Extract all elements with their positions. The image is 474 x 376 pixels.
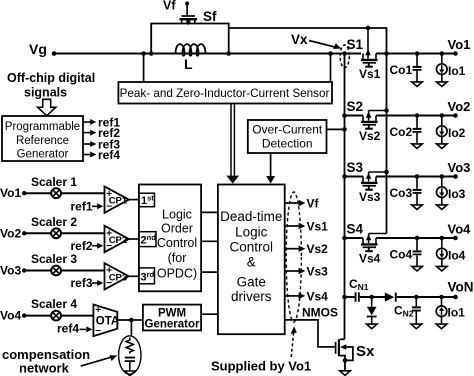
- ground under Co3: [412, 205, 423, 210]
- ground under D1: [366, 324, 377, 329]
- current source Io3 arrow: [441, 188, 443, 194]
- node CN2 junction: [414, 295, 419, 300]
- transistor S3 gate bar: [363, 185, 377, 187]
- node Co4 junction: [415, 236, 420, 241]
- ground under Io4: [437, 266, 448, 271]
- node S2 tap on Vx rail: [342, 113, 347, 118]
- wire Vx vertical rail: [344, 54, 346, 340]
- wire Vo2 feedback line: [24, 232, 104, 234]
- block dead-time logic control box: [218, 185, 285, 335]
- svg-text:+: +: [95, 305, 101, 316]
- svg-text:drivers: drivers: [231, 289, 272, 304]
- block 2nd priority sub-box: [139, 232, 156, 247]
- node Vo4 feedback dot: [22, 313, 26, 317]
- svg-text:Scaler 3: Scaler 3: [31, 252, 77, 266]
- svg-text:Vo4: Vo4: [0, 309, 21, 323]
- transistor S1 left contact: [362, 54, 364, 60]
- transistor S1 gate T bar: [365, 66, 373, 68]
- wire sensor output bus double line: [230, 104, 232, 177]
- transistor Sf left contact: [181, 20, 183, 24]
- svg-text:Io4: Io4: [448, 249, 466, 263]
- node VoN shunt diode junction: [369, 295, 374, 300]
- wire sensor bus arrowhead: [226, 176, 239, 184]
- svg-text:Io3: Io3: [448, 187, 466, 201]
- wire CP2 output: [129, 238, 139, 240]
- wire Vo3 feedback line: [24, 270, 104, 272]
- svg-text:Order: Order: [161, 222, 193, 236]
- wire to compensation network: [130, 320, 132, 337]
- node S3 tap on Vx rail: [342, 174, 347, 179]
- comparator CP3 triangle: [105, 263, 129, 289]
- wire supplied-by dashed arrow: [291, 333, 293, 357]
- svg-text:Sf: Sf: [203, 9, 217, 24]
- transistor S2 right contact: [375, 116, 377, 122]
- wire ref1 arrow: [92, 205, 99, 207]
- node Co2 junction: [415, 113, 420, 118]
- current source Io2 arrow: [441, 127, 443, 133]
- block 1st priority sub-box: [139, 193, 155, 207]
- wire Vs3 gate-drive output: [285, 270, 301, 272]
- wire VoN row from Vx rail: [345, 296, 355, 298]
- wire ref3 arrow: [92, 282, 99, 284]
- svg-text:CP3: CP3: [109, 272, 127, 283]
- svg-text:Vo4: Vo4: [448, 222, 472, 237]
- wire OCD output arrowhead: [266, 176, 275, 184]
- node Co3 junction: [415, 174, 420, 179]
- current source Io4 lower stub: [441, 259, 443, 266]
- wire S3 bulk line to rail: [369, 171, 387, 173]
- svg-text:Control: Control: [157, 236, 197, 250]
- transistor Sf gate bar: [182, 15, 196, 17]
- transistor S2 channel bar: [361, 121, 378, 123]
- wire right sense tap: [330, 54, 332, 83]
- node Vo3 feedback dot: [22, 268, 26, 272]
- svg-text:Co1: Co1: [390, 63, 413, 77]
- svg-text:network: network: [19, 361, 70, 376]
- diode D2 series triangle: [385, 293, 394, 302]
- wire OTA output: [117, 319, 143, 321]
- node Vf terminal dot: [185, 2, 189, 6]
- diode D1 cathode bar: [367, 316, 377, 318]
- wire ref2 output arrow: [83, 132, 92, 134]
- svg-text:Supplied by Vo1: Supplied by Vo1: [211, 359, 311, 374]
- node Io3 junction: [440, 174, 445, 179]
- capacitor CN1 plates: [355, 292, 357, 301]
- capacitor Co4 plates: [413, 250, 422, 252]
- svg-text:Over-Current: Over-Current: [252, 123, 323, 137]
- block logic order control box: [139, 185, 201, 292]
- block peak/zero inductor current sensor box: [118, 82, 332, 104]
- wire ref4 output arrow: [83, 154, 92, 156]
- transistor S1 drain stub from top rail: [367, 28, 369, 59]
- transistor S3 gate T stub: [368, 186, 370, 189]
- wire Vx pointer arrow: [309, 41, 336, 48]
- node S2 bulk junction on rail: [384, 108, 389, 113]
- multiplier scaler 3 symbol: [51, 266, 61, 276]
- wire Cc lower stub: [129, 362, 131, 371]
- transistor S2 gate T bar: [365, 128, 373, 130]
- current source Io1 arrow: [441, 65, 443, 71]
- svg-text:Vx: Vx: [291, 32, 308, 47]
- wire S4 stub from Vx rail: [345, 237, 364, 239]
- svg-text:Co4: Co4: [390, 248, 413, 262]
- wire S4 bulk line to rail: [369, 233, 387, 235]
- wire S4 bulk stub: [368, 234, 370, 244]
- svg-text:Off-chip digital: Off-chip digital: [7, 71, 95, 85]
- wire left sense tap: [143, 54, 145, 83]
- node Co1 junction: [415, 51, 420, 56]
- svg-text:ref3: ref3: [71, 276, 93, 290]
- capacitor Co2 plates: [413, 128, 422, 130]
- svg-text:ref4: ref4: [98, 148, 120, 162]
- wire S2 stub from Vx rail: [345, 115, 364, 117]
- op-amp OTA body: [93, 305, 117, 337]
- wire Vo4 output line: [376, 237, 456, 239]
- ground under Co2: [412, 144, 423, 149]
- node Vg terminal dot: [52, 51, 57, 56]
- transistor S1 channel bar: [361, 59, 378, 61]
- capacitor Co4 stub: [416, 238, 418, 250]
- svg-text:Logic: Logic: [162, 207, 192, 221]
- svg-text:S4: S4: [347, 222, 364, 237]
- wire CP3 output: [129, 275, 139, 277]
- transistor S3 right contact: [375, 177, 377, 183]
- current source Io1N lower stub: [441, 317, 443, 325]
- svg-text:Vs3: Vs3: [307, 265, 329, 279]
- capacitor CN2 lower stub: [415, 312, 417, 325]
- transistor S3 channel bar: [361, 182, 378, 184]
- capacitor Co3 stub: [416, 177, 418, 189]
- current source Io2 circle: [437, 126, 448, 137]
- svg-text:OPDC): OPDC): [157, 267, 197, 281]
- transistor S3 left contact: [362, 177, 364, 183]
- node right sense tap dot: [328, 51, 333, 56]
- current source Io1N stub: [441, 297, 443, 306]
- svg-text:Logic: Logic: [235, 224, 268, 239]
- node S1 output / bulk rail junction: [384, 51, 389, 56]
- node loop right junction: [226, 51, 231, 56]
- transistor S4 gate T stub: [368, 247, 370, 250]
- node Vo2 terminal dot: [453, 113, 458, 118]
- ground under Co1: [412, 82, 423, 87]
- svg-text:Vo1: Vo1: [0, 186, 21, 200]
- capacitor Cc plates: [125, 357, 135, 359]
- svg-text:Vo2: Vo2: [448, 99, 471, 114]
- transistor Sx gate bar: [335, 342, 337, 354]
- svg-text:Generator: Generator: [17, 149, 69, 161]
- diode D1 shunt stub: [371, 297, 373, 307]
- wire VoN line right: [397, 296, 456, 298]
- svg-text:Scaler 1: Scaler 1: [31, 175, 77, 189]
- node OTA output junction: [129, 318, 134, 323]
- transistor S2 bulk arrowhead: [366, 112, 372, 118]
- current source Io3 stub: [441, 177, 443, 187]
- svg-text:ref2: ref2: [71, 239, 93, 253]
- node Sx source/bulk junction: [343, 358, 348, 363]
- node Io2 junction: [440, 113, 445, 118]
- capacitor CN2 stub: [415, 297, 417, 306]
- wire Vg/Vx main horizontal line: [54, 53, 361, 55]
- wire S2 bulk line to rail: [369, 110, 387, 112]
- ground under compensation network: [125, 371, 136, 376]
- svg-text:CP2: CP2: [109, 235, 127, 246]
- transistor S1 bulk arrowhead: [365, 49, 371, 55]
- multiplier scaler 2 symbol: [51, 228, 61, 238]
- wire logic box output: [201, 211, 218, 213]
- wire CN1 to diode: [360, 296, 385, 298]
- current source Io2 stub: [441, 116, 443, 126]
- resistor Rc zigzag: [126, 338, 133, 354]
- current source Io4 arrow: [441, 250, 443, 256]
- svg-text:PWM: PWM: [158, 307, 186, 319]
- svg-text:S2: S2: [347, 99, 364, 114]
- svg-text:Io2: Io2: [448, 126, 466, 140]
- svg-text:signals: signals: [24, 85, 67, 99]
- node Vo1 feedback dot: [22, 191, 26, 195]
- wire Vs4 gate-drive output: [285, 295, 301, 297]
- diode D1 triangle: [367, 307, 377, 315]
- svg-text:Sx: Sx: [356, 343, 375, 360]
- wire ref1 output arrow: [83, 121, 92, 123]
- svg-text:Vs1: Vs1: [307, 220, 329, 234]
- wire Vf gate-drive output: [285, 202, 301, 204]
- svg-text:Vs4: Vs4: [307, 289, 329, 303]
- transistor S2 gate bar: [363, 124, 377, 126]
- wire Vf to Sf gate: [186, 4, 188, 16]
- svg-text:Programmable: Programmable: [5, 121, 80, 133]
- transistor S1 right contact: [375, 54, 377, 60]
- svg-text:Vf: Vf: [307, 197, 320, 211]
- wire PWM to dead-time box: [201, 313, 218, 315]
- wire Vs1 gate-drive output: [285, 225, 301, 227]
- svg-text:Co2: Co2: [390, 125, 413, 139]
- multiplier scaler 1 symbol: [51, 188, 61, 198]
- wire Sx bulk loop: [345, 347, 353, 360]
- transistor S2 left contact: [362, 116, 364, 122]
- current source Io4 circle: [437, 248, 448, 259]
- wire block arrow into reference generator: [38, 99, 56, 115]
- svg-text:(for: (for: [168, 251, 187, 265]
- wire OCD output down: [270, 153, 272, 177]
- wire Vo1 feedback line: [24, 192, 104, 194]
- node Vo1 terminal dot: [453, 51, 458, 56]
- ground under Io3: [437, 205, 448, 210]
- svg-text:Vo3: Vo3: [0, 264, 21, 278]
- ground under Co4: [412, 266, 423, 271]
- current source Io4 stub: [441, 238, 443, 248]
- wire top rail to bulk rail: [229, 28, 387, 234]
- wire NMOS gate wire: [285, 320, 335, 347]
- wire OCD sense line to Vx rail: [327, 128, 345, 130]
- node Io1N junction: [439, 295, 444, 300]
- transistor S4 gate bar: [363, 246, 377, 248]
- transistor Sx channel bar: [338, 339, 340, 356]
- capacitor Co3 plates: [413, 189, 422, 191]
- wire compensation pointer arrow: [81, 357, 112, 366]
- svg-text:Dead-time: Dead-time: [220, 209, 282, 224]
- svg-text:Vs2: Vs2: [307, 242, 329, 256]
- svg-text:ref4: ref4: [57, 322, 79, 336]
- wire S3 stub from Vx rail: [345, 176, 364, 178]
- capacitor Co3 lower stub: [416, 194, 418, 205]
- wire CP1 output: [129, 199, 139, 201]
- svg-text:Vs4: Vs4: [359, 252, 381, 266]
- svg-text:Vg: Vg: [29, 41, 47, 57]
- capacitor Co2 lower stub: [416, 133, 418, 144]
- wire Vs2 gate-drive output: [285, 248, 301, 250]
- capacitor Co1 plates: [413, 66, 422, 68]
- svg-text:Vo3: Vo3: [448, 160, 471, 175]
- node Io4 junction: [440, 236, 445, 241]
- capacitor Co2 stub: [416, 116, 418, 128]
- current source Io3 circle: [437, 187, 448, 198]
- capacitor Co1 lower stub: [416, 71, 418, 82]
- node Io1 junction: [440, 51, 445, 56]
- current source Io1N circle: [436, 306, 447, 317]
- block over-current detection box: [248, 120, 327, 153]
- svg-text:Control: Control: [230, 240, 274, 255]
- svg-text:Vs3: Vs3: [359, 190, 381, 204]
- block PWM generator box: [143, 305, 201, 331]
- svg-text:Co3: Co3: [390, 186, 413, 200]
- wire ref3 output arrow: [83, 143, 92, 145]
- svg-text:Gate: Gate: [237, 274, 266, 289]
- current source Io1N up arrow: [441, 309, 443, 315]
- current source Io1 lower stub: [441, 74, 443, 81]
- wire S2 bulk stub: [368, 111, 370, 121]
- svg-text:Scaler 4: Scaler 4: [31, 297, 77, 311]
- transistor S3 bulk arrowhead: [366, 173, 372, 179]
- node Vo4 terminal dot: [453, 236, 458, 241]
- diode D1 lower stub: [371, 317, 373, 324]
- svg-text:OTA: OTA: [96, 316, 119, 328]
- svg-text:Vf: Vf: [163, 0, 176, 13]
- svg-text:&: &: [247, 254, 256, 269]
- transistor Sx bulk arrowhead: [340, 344, 346, 350]
- ground under Io1N: [436, 324, 447, 329]
- multiplier scaler 4 symbol: [51, 311, 61, 321]
- wire Sx source: [340, 356, 345, 371]
- svg-text:S1: S1: [347, 37, 364, 52]
- svg-text:CP1: CP1: [109, 196, 128, 207]
- capacitor Co1 stub: [416, 54, 418, 66]
- wire Vo4 feedback line: [24, 315, 104, 317]
- ground under Sx: [340, 371, 351, 376]
- node Vo3 terminal dot: [453, 174, 458, 179]
- capacitor CN2 plates: [412, 306, 421, 308]
- svg-text:Reference: Reference: [16, 135, 69, 147]
- comparator CP1 triangle: [105, 186, 129, 212]
- current source Io2 lower stub: [441, 136, 443, 143]
- wire Vo1 output line: [376, 53, 456, 55]
- node S4 tap on Vx rail: [342, 236, 347, 241]
- current source Io1 circle: [437, 64, 448, 75]
- svg-text:Peak- and Zero-Inductor-Curren: Peak- and Zero-Inductor-Current Sensor: [120, 87, 330, 100]
- capacitor Co4 lower stub: [416, 255, 418, 266]
- transistor S4 right contact: [375, 238, 377, 244]
- wire Sf bypass loop: [151, 24, 229, 54]
- svg-text:Vs1: Vs1: [359, 67, 381, 81]
- node left sense tap dot: [141, 51, 146, 56]
- comparator CP2 triangle: [105, 226, 129, 252]
- wire Vo2 output line: [376, 115, 456, 117]
- svg-text:Scaler 2: Scaler 2: [31, 215, 77, 229]
- ground under CN2: [411, 324, 422, 329]
- inductor L winding: [176, 44, 206, 56]
- transistor S2 gate T stub: [368, 125, 370, 128]
- block programmable reference generator box: [2, 116, 83, 161]
- transistor S3 gate T bar: [365, 189, 373, 191]
- svg-text:VoN: VoN: [448, 280, 474, 295]
- ground under Io1: [437, 82, 448, 87]
- transistor Sf source arrow: [187, 20, 189, 22]
- node S3 bulk junction on rail: [384, 170, 389, 175]
- node Vo2 feedback dot: [22, 231, 26, 235]
- node Vx dashed ellipse marker: [340, 45, 349, 68]
- transistor Sf channel bar: [180, 18, 198, 20]
- transistor S1 gate bar: [363, 62, 377, 64]
- node VoN terminal dot: [453, 295, 458, 300]
- wire logic box output: [201, 271, 218, 273]
- node VoN tap on Vx rail: [342, 295, 347, 300]
- transistor S4 gate T bar: [365, 250, 373, 252]
- wire Sx drain from Vx rail: [340, 338, 345, 340]
- node S1 drain tap on top rail: [366, 26, 371, 31]
- node compensation network ellipse: [119, 336, 141, 374]
- transistor S4 channel bar: [361, 243, 378, 245]
- svg-text:Io1: Io1: [448, 306, 466, 320]
- node OCD tap on Vx rail: [342, 127, 347, 132]
- wire Vo3 output line: [376, 176, 456, 178]
- block 3rd priority sub-box: [139, 268, 155, 284]
- diode D2 cathode bar: [395, 293, 397, 302]
- wire logic box output: [201, 240, 218, 242]
- wire ref4 arrow: [80, 328, 87, 330]
- svg-text:Generator: Generator: [145, 319, 200, 331]
- transistor Sf right contact: [194, 20, 196, 24]
- svg-text:Detection: Detection: [262, 137, 313, 151]
- svg-text:Io1: Io1: [448, 64, 466, 78]
- svg-text:Vs2: Vs2: [359, 129, 381, 143]
- svg-text:L: L: [184, 56, 193, 72]
- transistor S1 gate T stub: [368, 63, 370, 66]
- svg-text:Vo1: Vo1: [448, 37, 471, 52]
- node dashed ellipse around gate drive bus: [286, 192, 301, 322]
- current source Io1 stub: [441, 54, 443, 64]
- svg-text:NMOS: NMOS: [302, 306, 338, 320]
- svg-text:Vo2: Vo2: [0, 226, 21, 240]
- svg-text:S3: S3: [347, 160, 364, 175]
- svg-text:ref1: ref1: [71, 199, 93, 213]
- node Vx rail top junction: [342, 51, 347, 56]
- node loop left junction: [149, 51, 154, 56]
- transistor S4 left contact: [362, 238, 364, 244]
- transistor S4 bulk arrowhead: [366, 235, 372, 241]
- wire ref2 arrow: [92, 245, 99, 247]
- ground under Io2: [437, 144, 448, 149]
- current source Io3 lower stub: [441, 197, 443, 204]
- wire S3 bulk stub: [368, 172, 370, 182]
